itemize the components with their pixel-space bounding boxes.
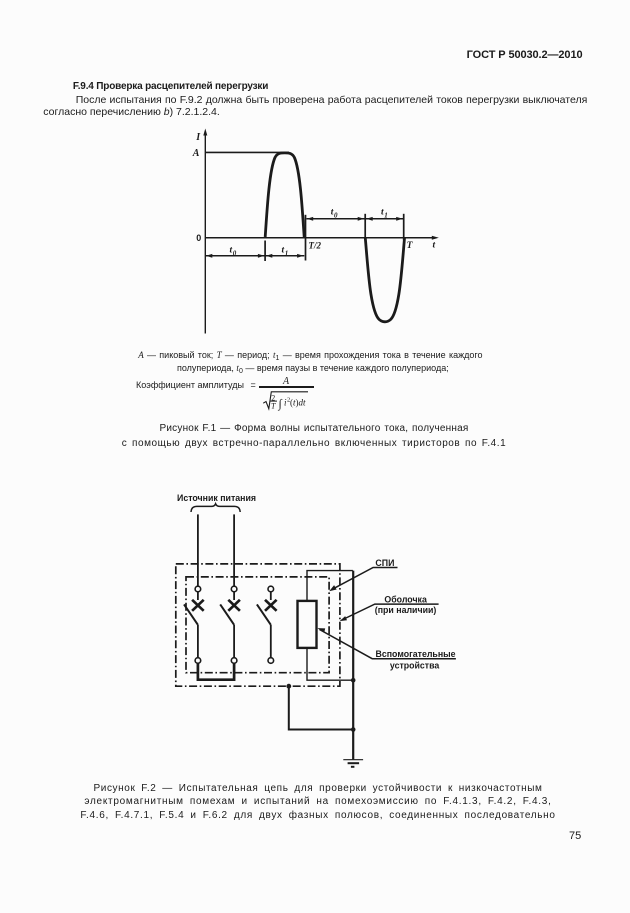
svg-text:0: 0	[233, 249, 237, 257]
svg-text:A: A	[192, 148, 200, 159]
svg-text:СПИ: СПИ	[375, 558, 394, 568]
svg-text:0: 0	[196, 233, 201, 243]
svg-text:Источник питания: Источник питания	[177, 493, 256, 503]
svg-text:1: 1	[285, 249, 289, 257]
svg-text:0: 0	[334, 211, 338, 219]
svg-text:T: T	[271, 402, 276, 411]
svg-text:устройства: устройства	[390, 661, 440, 671]
svg-text:1: 1	[384, 211, 388, 219]
svg-text:t: t	[433, 241, 436, 251]
svg-text:T: T	[407, 241, 414, 251]
svg-text:Оболочка: Оболочка	[384, 595, 427, 605]
svg-text:Вспомогательные: Вспомогательные	[376, 649, 456, 659]
svg-text:I: I	[195, 132, 201, 143]
svg-text:T/2: T/2	[309, 241, 322, 251]
svg-text:(при наличии): (при наличии)	[375, 605, 437, 615]
svg-text:∫: ∫	[278, 397, 283, 411]
svg-text:(t)dt: (t)dt	[290, 398, 306, 408]
